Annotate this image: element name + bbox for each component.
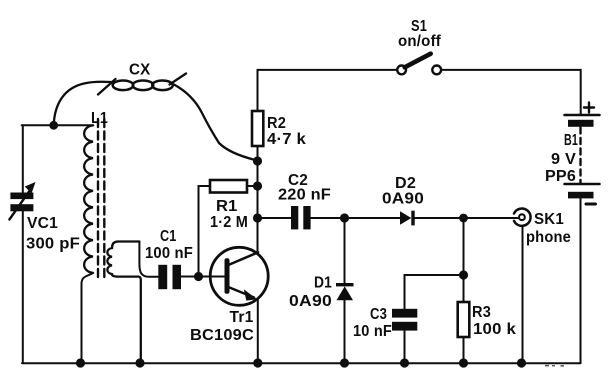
svg-text:PP6: PP6 xyxy=(545,168,576,185)
svg-text:CX: CX xyxy=(129,62,151,79)
svg-text:4·7 k: 4·7 k xyxy=(267,131,306,148)
svg-text:D2: D2 xyxy=(395,175,416,192)
svg-text:D1: D1 xyxy=(314,275,332,292)
svg-text:1·2 M: 1·2 M xyxy=(210,214,248,231)
svg-text:R1: R1 xyxy=(216,198,238,215)
svg-text:VC1: VC1 xyxy=(27,215,58,232)
svg-text:9 V: 9 V xyxy=(551,151,576,168)
svg-text:SK1: SK1 xyxy=(534,211,564,228)
svg-text:220 nF: 220 nF xyxy=(278,187,331,204)
svg-text:300 pF: 300 pF xyxy=(26,236,80,253)
svg-text:Tr1: Tr1 xyxy=(230,309,254,326)
svg-text:100 k: 100 k xyxy=(473,321,516,338)
svg-text:10 nF: 10 nF xyxy=(353,323,392,340)
svg-text:on/off: on/off xyxy=(398,33,441,50)
svg-text:B1: B1 xyxy=(564,132,578,149)
svg-text:phone: phone xyxy=(526,229,571,246)
svg-text:0A90: 0A90 xyxy=(289,293,332,310)
svg-text:R3: R3 xyxy=(472,304,491,321)
svg-text:0A90: 0A90 xyxy=(382,191,424,208)
svg-text:C1: C1 xyxy=(160,228,177,245)
svg-text:L1: L1 xyxy=(91,110,108,127)
svg-text:100 nF: 100 nF xyxy=(145,245,193,262)
svg-text:C3: C3 xyxy=(370,306,387,323)
svg-text:R2: R2 xyxy=(267,115,286,132)
svg-text:BC109C: BC109C xyxy=(190,327,254,344)
